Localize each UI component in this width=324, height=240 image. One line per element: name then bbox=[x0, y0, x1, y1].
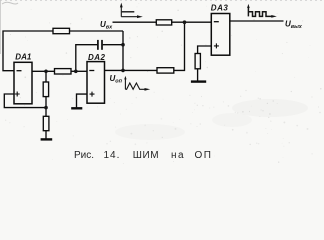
wire: R2 to DA2 minus input bbox=[71, 70, 87, 72]
wire: main vertical at x=123 down to DA2 output row bbox=[122, 31, 124, 70]
wire: R7 to ground bbox=[197, 69, 199, 81]
svg-text:DA3: DA3 bbox=[211, 3, 229, 12]
DA3 plus input mark bbox=[214, 43, 219, 48]
node X: DA2 output junction bbox=[121, 69, 125, 73]
capacitor C1 left plate bbox=[97, 40, 99, 50]
icon: input step waveform axes bbox=[121, 6, 138, 17]
wire: DA1 plus input loop to divider node bbox=[4, 94, 46, 108]
corner scan squiggle bbox=[2, 2, 18, 4]
wire: DA3 plus input left and down to R7 bbox=[198, 46, 212, 54]
wire: feedback from DA2 output node up and left to DA1 inverting input bbox=[3, 31, 53, 71]
wire: DA3 output to Uvyx bbox=[230, 20, 284, 22]
wire: R1 right to main vertical bbox=[70, 30, 124, 32]
node: DA1 output junction bbox=[44, 70, 48, 74]
wire: R3 to R4 bbox=[45, 97, 47, 117]
resistor R2 (DA1 out to DA2 inverting input) bbox=[55, 69, 72, 74]
DA1 minus input mark bbox=[17, 70, 22, 72]
op-amp DA2 bbox=[87, 62, 105, 104]
wire: input Uvx to R6 bbox=[113, 21, 157, 23]
svg-text:ШИМ: ШИМ bbox=[133, 150, 159, 161]
node C: divider midpoint junction bbox=[44, 106, 48, 110]
resistor R1 (top feedback) bbox=[53, 28, 70, 33]
resistor R5 (triangle to summing node) bbox=[157, 68, 174, 73]
svg-text:Рис.: Рис. bbox=[74, 150, 94, 161]
resistor R3 (divider top) bbox=[43, 82, 48, 97]
paper background bbox=[0, 0, 324, 169]
scan left edge line bbox=[0, 0, 2, 54]
ground under DA2 plus bbox=[71, 107, 82, 109]
wire: R5 up to summing node bbox=[174, 22, 185, 70]
DA3 minus input mark bbox=[214, 21, 219, 23]
wire: DA2 output to R5 bbox=[105, 69, 158, 71]
DA1 plus input mark bbox=[15, 92, 20, 97]
resistor R4 (divider bottom) bbox=[43, 116, 49, 130]
op-amp DA1 bbox=[14, 62, 32, 104]
resistor R7 (DA3 plus to ground) bbox=[195, 54, 200, 69]
capacitor C1 right plate bbox=[101, 40, 103, 50]
scan top edge line bbox=[0, 0, 324, 2]
node: summing junction at DA3 input bbox=[183, 20, 187, 24]
wire: capacitor branch from node B up and right bbox=[76, 45, 98, 72]
wire: DA1 output to R2 bbox=[32, 70, 55, 72]
ground under divider bbox=[41, 138, 53, 140]
paper speckle noise bbox=[2, 3, 322, 164]
DA2 plus input mark bbox=[90, 92, 95, 97]
node B: DA2 inverting input junction bbox=[74, 70, 78, 74]
svg-text:ОП: ОП bbox=[195, 150, 213, 161]
wire: DA2 plus input down to common bbox=[77, 94, 88, 107]
wire: DA1 output node down to R3 bbox=[45, 71, 47, 82]
wire: R4 to ground bbox=[45, 131, 47, 139]
svg-text:DA2: DA2 bbox=[88, 53, 106, 62]
svg-text:14.: 14. bbox=[104, 150, 121, 161]
wire: R6 to DA3 minus input bbox=[172, 21, 212, 23]
icon: output pulse waveform bbox=[248, 7, 272, 16]
faint scan smudges bbox=[232, 99, 308, 117]
wire: capacitor right plate to main vertical bbox=[103, 44, 123, 46]
icon: triangle waveform at Uop bbox=[125, 79, 145, 90]
resistor R6 (input) bbox=[156, 20, 171, 25]
node: capacitor to main vertical junction bbox=[121, 43, 125, 47]
svg-text:DA1: DA1 bbox=[15, 53, 32, 62]
op-amp DA3 bbox=[211, 14, 230, 56]
DA2 minus input mark bbox=[89, 70, 94, 72]
ground under R7 bbox=[191, 80, 206, 82]
svg-text:на: на bbox=[171, 150, 185, 161]
